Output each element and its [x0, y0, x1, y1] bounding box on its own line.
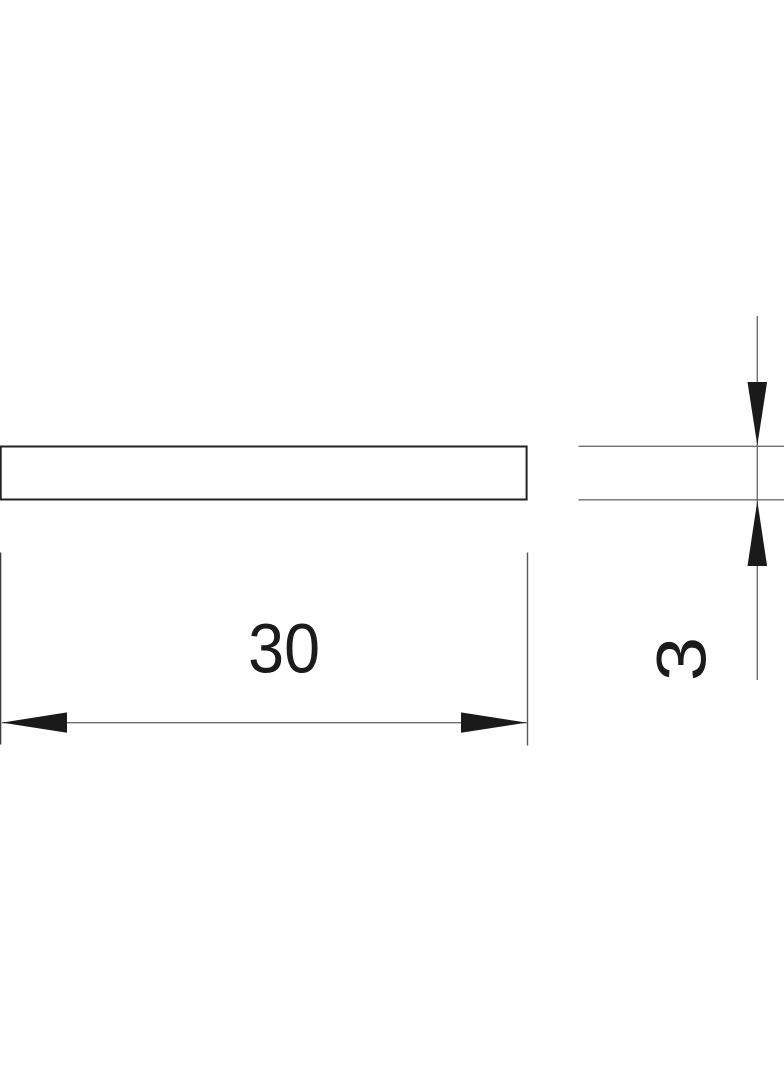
extension line bottom (thickness dim)	[579, 499, 784, 501]
svg-text:3: 3	[642, 637, 720, 681]
arrowhead right	[461, 712, 527, 732]
svg-text:30: 30	[248, 610, 320, 688]
arrowhead up	[748, 501, 768, 566]
dimension line 30	[2, 722, 527, 724]
extension line top (thickness dim)	[579, 445, 784, 447]
dimension line 3 (vertical)	[756, 316, 758, 680]
arrowhead down	[748, 382, 768, 446]
extension line left (width dim)	[0, 553, 2, 745]
plate outline (front view, 30 wide x 3 thick flat bar)	[1, 447, 527, 500]
arrowhead left	[2, 712, 67, 732]
extension line right (width dim)	[527, 553, 529, 746]
